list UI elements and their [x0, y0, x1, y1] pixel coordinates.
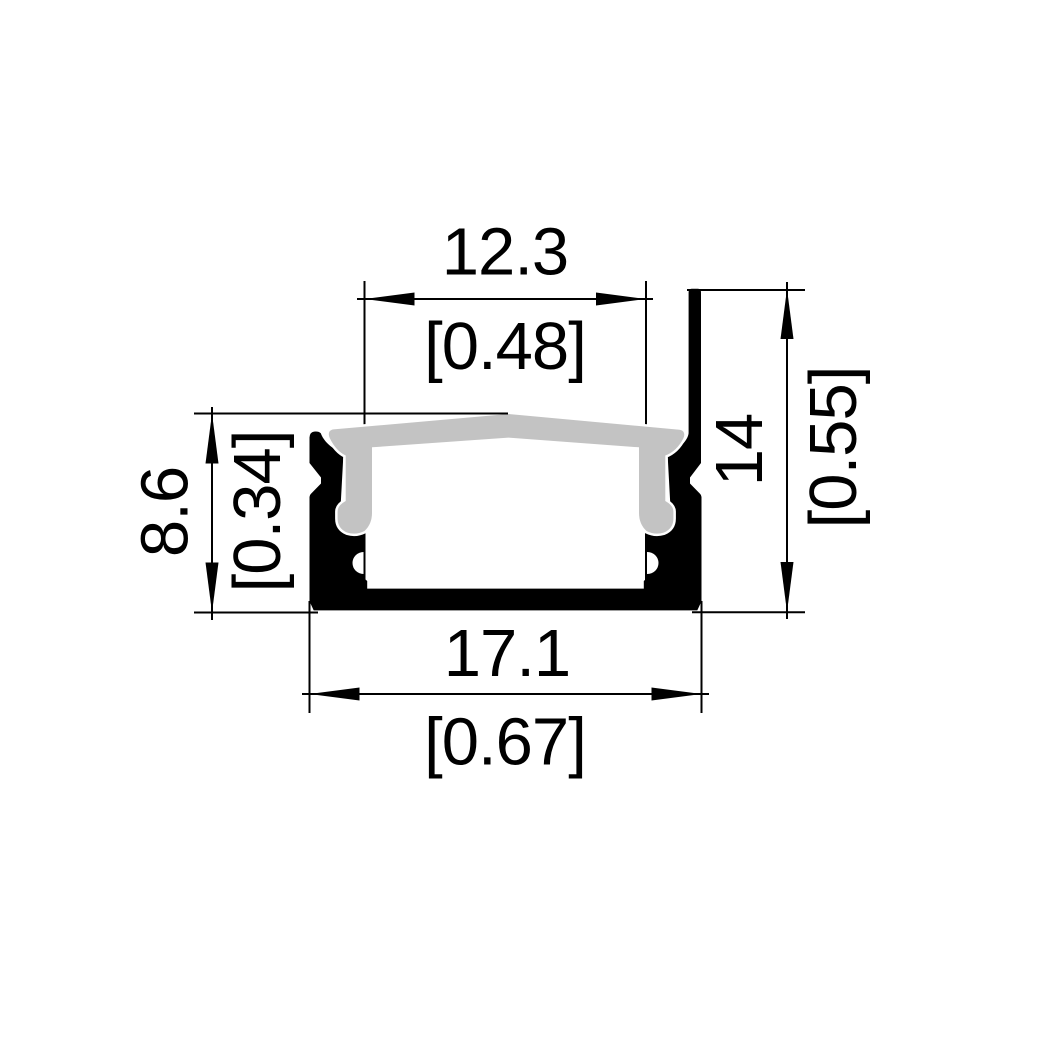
- svg-text:12.3: 12.3: [442, 215, 568, 290]
- arrow top of dim 8.6: [206, 414, 219, 464]
- left inner wall notch (white circle): [353, 552, 375, 574]
- arrow top of dim 14: [781, 289, 794, 339]
- arrow bottom of dim 8.6: [206, 563, 219, 613]
- arrow right of dim 12.3: [596, 293, 646, 306]
- extension line right of dim 12.3: [645, 281, 647, 586]
- dimension line 14 (right vertical): [786, 282, 788, 619]
- svg-text:8.6: 8.6: [128, 467, 203, 557]
- arrow left of dim 17.1: [310, 688, 360, 701]
- dimension line 17.1: [302, 693, 709, 695]
- extension line right of dim 17.1: [701, 601, 703, 713]
- aluminum profile body (black U-channel with right fin): [310, 289, 702, 611]
- svg-text:[0.34]: [0.34]: [220, 431, 295, 593]
- extension line left of dim 12.3: [364, 281, 366, 586]
- svg-text:17.1: 17.1: [444, 616, 570, 691]
- bottom extension line of dim 14: [692, 611, 805, 613]
- arrow right of dim 17.1: [652, 688, 702, 701]
- top extension line of dim 8.6 (to diffuser apex): [194, 413, 508, 415]
- arrow bottom of dim 14: [781, 562, 794, 612]
- svg-text:[0.48]: [0.48]: [424, 309, 586, 384]
- diffuser cover (gray with white outline): [329, 414, 684, 534]
- right inner wall notch (white circle): [637, 552, 659, 574]
- top extension line of dim 14: [687, 289, 805, 291]
- dimension line 8.6 (left vertical): [211, 407, 213, 620]
- dimension line 12.3: [357, 298, 653, 300]
- svg-text:[0.55]: [0.55]: [796, 367, 871, 529]
- svg-text:14: 14: [702, 414, 777, 487]
- arrow left of dim 12.3: [365, 293, 415, 306]
- svg-text:[0.67]: [0.67]: [424, 705, 586, 780]
- extension line left of dim 17.1: [309, 601, 311, 713]
- bottom extension line of dim 8.6: [194, 612, 318, 614]
